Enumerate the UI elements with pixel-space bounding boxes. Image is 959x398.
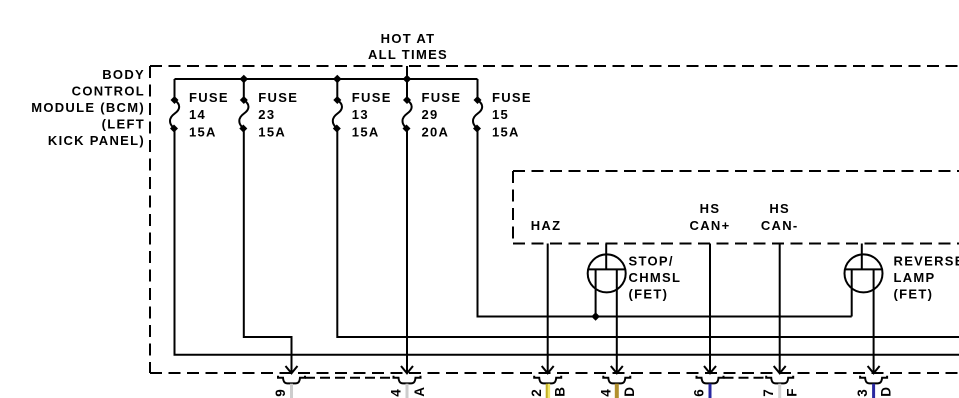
- svg-text:KICK PANEL): KICK PANEL): [48, 133, 145, 148]
- svg-text:CAN-: CAN-: [761, 218, 799, 233]
- svg-text:FUSE: FUSE: [492, 90, 532, 105]
- wire stub pin 4A gray: [406, 384, 409, 398]
- svg-text:(FET): (FET): [894, 287, 934, 302]
- inner FET-driver dashed box top edge: [513, 170, 959, 172]
- fuse F14 terminal dots: [171, 96, 179, 104]
- connector cup symbols: [278, 376, 887, 384]
- arrow pin 9: [286, 366, 298, 373]
- svg-text:HOT AT: HOT AT: [381, 31, 436, 46]
- wire stub pin 2B yellow: [546, 384, 548, 398]
- wire: REVERSE LAMP FET left leg to fuse 15 rail: [851, 269, 853, 316]
- svg-text:6: 6: [692, 388, 707, 397]
- junction dot on bus at fuse 29: [403, 75, 412, 84]
- wire stub pin 3D blue: [872, 384, 875, 398]
- svg-text:15A: 15A: [492, 125, 520, 140]
- wire stub pin 7F gray: [778, 384, 781, 398]
- svg-text:HAZ: HAZ: [531, 218, 562, 233]
- svg-text:(LEFT: (LEFT: [102, 117, 145, 132]
- svg-text:STOP/: STOP/: [629, 254, 674, 269]
- wire: fuse 29 output straight down to pin 4A: [406, 129, 408, 373]
- svg-text:D: D: [879, 386, 894, 397]
- svg-text:(FET): (FET): [629, 287, 669, 302]
- svg-text:3: 3: [855, 388, 870, 397]
- svg-text:15A: 15A: [189, 125, 217, 140]
- svg-text:FUSE: FUSE: [422, 90, 462, 105]
- inner FET-driver dashed box bottom edge: [513, 243, 959, 245]
- svg-text:HS: HS: [769, 201, 790, 216]
- junction dot node: fuse15 rail to STOP FET left leg: [591, 312, 600, 321]
- wire: STOP/CHMSL FET gate feed: [605, 244, 607, 270]
- svg-text:CAN+: CAN+: [690, 218, 731, 233]
- svg-text:CHMSL: CHMSL: [629, 270, 682, 285]
- arrow pin 2B: [542, 366, 554, 373]
- wire stub pin 6 blue: [709, 384, 712, 398]
- svg-text:REVERSE: REVERSE: [894, 254, 959, 269]
- svg-text:A: A: [412, 386, 427, 397]
- svg-text:4: 4: [598, 388, 613, 397]
- svg-text:4: 4: [389, 388, 404, 397]
- fuse F14 element: [170, 79, 179, 129]
- fuse F15 element: [473, 79, 482, 129]
- wire stub pin 9 gray: [290, 384, 293, 398]
- wire: fuse 14 output down and right to edge: [175, 129, 959, 355]
- inner FET-driver dashed box left edge: [512, 171, 514, 244]
- svg-text:B: B: [553, 386, 568, 397]
- connector cup pin 9: [278, 376, 305, 384]
- svg-text:15: 15: [492, 107, 509, 122]
- svg-text:MODULE (BCM): MODULE (BCM): [31, 100, 145, 115]
- wire: STOP/CHMSL FET left leg to fuse 15 rail: [595, 269, 597, 316]
- svg-text:FUSE: FUSE: [258, 90, 298, 105]
- coloured wire stubs below connector: [290, 384, 875, 398]
- svg-text:20A: 20A: [422, 125, 450, 140]
- wire: HAZ output down to pin 2B: [547, 244, 549, 373]
- BCM outer dashed box bottom edge: [150, 372, 959, 374]
- junction dot on bus at fuse 13: [333, 75, 342, 84]
- wire: fuse 15 output down and right feeding both FETs: [478, 129, 852, 317]
- svg-text:BODY: BODY: [102, 67, 145, 82]
- fuse F23 element: [239, 79, 248, 129]
- transistor Q2 REVERSE LAMP FET circle: [845, 254, 883, 292]
- svg-text:LAMP: LAMP: [894, 270, 936, 285]
- fuse F13 element: [333, 79, 342, 129]
- svg-text:FUSE: FUSE: [352, 90, 392, 105]
- svg-text:14: 14: [189, 107, 206, 122]
- arrows into BCM connector row: [286, 366, 880, 373]
- svg-text:CONTROL: CONTROL: [72, 84, 145, 99]
- arrow pin 6: [704, 366, 716, 373]
- wire: hot feed from HOT AT ALL TIMES into bus: [406, 66, 408, 79]
- svg-text:13: 13: [352, 107, 369, 122]
- connector cup pin 2B: [534, 376, 561, 384]
- wire: REVERSE LAMP FET gate feed: [861, 244, 863, 270]
- arrow pin 3D: [868, 366, 880, 373]
- wire: REVERSE LAMP FET right leg down to pin 3D: [873, 269, 875, 372]
- fuse F23 terminal dots: [240, 96, 248, 104]
- connector cup pin 4A: [394, 376, 421, 384]
- wire stub pin 4D dark yellow: [615, 384, 619, 398]
- fuse F29 element: [403, 79, 412, 129]
- arrow pin 4D: [611, 366, 623, 373]
- fuse F13 terminal dots: [333, 96, 341, 104]
- connector cup pin 3D: [860, 376, 887, 384]
- connector cup pin 7F: [766, 376, 793, 384]
- svg-text:HS: HS: [700, 201, 721, 216]
- connector bracket dashed between pin 9 and pin 4A: [305, 377, 394, 379]
- connector cup pin 4D: [603, 376, 630, 384]
- svg-text:ALL TIMES: ALL TIMES: [368, 47, 448, 62]
- svg-text:2: 2: [529, 388, 544, 397]
- connector bracket dashed between pin 6 and pin 7F: [724, 377, 767, 379]
- wire: fuse 23 output down, right, down to pin 9: [244, 129, 292, 373]
- svg-text:9: 9: [273, 388, 288, 397]
- wire: fuse supply bus: [175, 78, 478, 80]
- svg-text:7: 7: [761, 388, 776, 397]
- junction dot on bus at fuse 23: [240, 75, 249, 84]
- wire: HS CAN+ down to pin 6: [709, 244, 711, 373]
- arrow pin 7F: [774, 366, 786, 373]
- STOP/CHMSL FET internal bar: [588, 268, 626, 270]
- arrow pin 4A: [401, 366, 413, 373]
- svg-text:D: D: [622, 386, 637, 397]
- svg-text:29: 29: [422, 107, 439, 122]
- connector cup pin 6: [697, 376, 724, 384]
- svg-text:F: F: [785, 387, 800, 396]
- REVERSE LAMP FET internal bar: [845, 268, 883, 270]
- svg-text:23: 23: [258, 107, 275, 122]
- BCM outer dashed box top edge: [150, 65, 959, 67]
- svg-text:15A: 15A: [258, 125, 286, 140]
- wire: HS CAN- down to pin 7F: [779, 244, 781, 373]
- BCM outer dashed box left edge: [149, 66, 151, 373]
- transistor Q1 STOP/CHMSL FET circle: [588, 254, 626, 292]
- fuse F29 terminal dots: [403, 96, 411, 104]
- svg-text:FUSE: FUSE: [189, 90, 229, 105]
- wire: STOP/CHMSL FET right leg down to pin 4D: [616, 269, 618, 372]
- svg-text:15A: 15A: [352, 125, 380, 140]
- wire: fuse 13 output down and right to edge: [337, 129, 959, 338]
- fuse F15 terminal dots: [474, 96, 482, 104]
